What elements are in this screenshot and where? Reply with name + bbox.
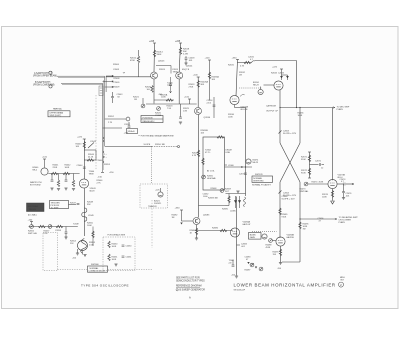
svg-text:SWP CAL: SWP CAL (28, 232, 38, 235)
gain box (249, 233, 262, 240)
tube V2084B (276, 237, 285, 246)
svg-text:SWP/MAG: SWP/MAG (28, 205, 39, 208)
svg-text:100K: 100K (228, 117, 233, 119)
pot R2088 (269, 239, 273, 243)
svg-text:LOWER BEAM HORIZONTAL AMPLIFIE: LOWER BEAM HORIZONTAL AMPLIFIER (234, 282, 336, 287)
tube V2034A (230, 95, 239, 104)
svg-text:910K: 910K (301, 173, 306, 175)
svg-text:TO SWP: TO SWP (51, 207, 60, 209)
svg-text:R2074: R2074 (312, 182, 319, 184)
svg-text:1M: 1M (239, 75, 242, 77)
svg-text:b→: b→ (104, 157, 107, 159)
capacitor C2018 (185, 56, 187, 58)
svg-text:6DL4 B: 6DL4 B (241, 109, 249, 111)
common mode box (88, 266, 108, 272)
wire to CF plate (255, 60, 297, 62)
svg-text:2.7K: 2.7K (97, 183, 102, 185)
svg-text:+225: +225 (77, 137, 83, 139)
svg-text:C2061: C2061 (126, 257, 133, 259)
svg-text:7.5K: 7.5K (167, 108, 172, 110)
svg-text:R2034: R2034 (271, 73, 278, 75)
svg-text:R2024: R2024 (159, 69, 166, 71)
svg-text:C2072: C2072 (239, 174, 246, 176)
cathode resistor R2076 (332, 189, 334, 201)
svg-text:T2049: T2049 (73, 224, 80, 226)
capacitor C2044 / trimmer (83, 167, 86, 168)
grid wire (106, 76, 151, 78)
output wire to delayed sweep plate (280, 107, 333, 109)
svg-text:R2085: R2085 (222, 209, 229, 211)
tube V2074B (328, 179, 337, 188)
diode pair (281, 75, 289, 80)
position range box (141, 116, 163, 123)
svg-text:REGIS: REGIS (29, 209, 36, 211)
svg-text:+225: +225 (149, 41, 155, 43)
svg-text:6AU5W: 6AU5W (287, 236, 294, 239)
capacitor C2024 coupling (156, 66, 171, 74)
dashed box A (43, 233, 58, 271)
svg-text:100K: 100K (112, 246, 117, 248)
svg-text:30K: 30K (200, 84, 204, 86)
resistors R2071 R2072 (309, 152, 311, 178)
svg-text:SLOPE: SLOPE (144, 144, 151, 146)
resistor R2096 (299, 222, 301, 229)
svg-text:C2051: C2051 (124, 124, 131, 126)
plate output wire (299, 218, 300, 219)
svg-text:C2043: C2043 (90, 141, 97, 143)
wire X right leg top (299, 108, 301, 144)
supply +225 (tube V2024A) (153, 42, 156, 44)
svg-text:PLATE: PLATE (337, 108, 344, 111)
pot on bottom edge (220, 189, 224, 193)
svg-text:1.8K: 1.8K (183, 111, 188, 113)
svg-text:100K: 100K (87, 225, 92, 227)
bus component cluster (103, 76, 112, 92)
svg-text:TRIM: TRIM (173, 71, 178, 73)
svg-text:a→: a→ (104, 154, 107, 156)
svg-text:+225: +225 (175, 41, 181, 43)
svg-text:C2058: C2058 (55, 230, 62, 232)
svg-text:C2009: C2009 (114, 82, 121, 84)
potentiometer POSN (157, 107, 161, 111)
svg-text:COMMON MODE: COMMON MODE (89, 270, 106, 272)
svg-text:270K: 270K (189, 87, 194, 89)
svg-text:RANGE ADJ: RANGE ADJ (143, 120, 155, 123)
svg-text:6DQ7 B: 6DQ7 B (182, 69, 190, 71)
resistor R2014 (153, 50, 155, 57)
svg-text:R2006: R2006 (113, 64, 120, 66)
resistor R2026 (153, 79, 155, 104)
capacitor C2031 (251, 61, 255, 63)
svg-text:R2008: R2008 (114, 78, 121, 80)
svg-text:C2044: C2044 (77, 165, 84, 167)
svg-text:1M: 1M (172, 217, 175, 219)
svg-text:Q2024: Q2024 (186, 66, 193, 68)
svg-text:C2034: C2034 (278, 73, 285, 75)
grid wire (48, 173, 79, 175)
capacitor C2076 (343, 184, 345, 192)
transistor Q2034 (195, 108, 202, 115)
svg-text:REFERENCE DIAGRAM: REFERENCE DIAGRAM (176, 285, 202, 288)
resistor R2043 (83, 142, 85, 149)
test point pads (112, 75, 114, 88)
svg-text:R2086: R2086 (212, 228, 219, 230)
svg-text:A SAWTOOTH ↗: A SAWTOOTH ↗ (34, 72, 52, 75)
lamp B2074 (246, 159, 251, 164)
svg-text:FOR DETAILS SEE: FOR DETAILS SEE (108, 234, 126, 237)
wire to DC shift (103, 127, 123, 129)
svg-text:4.7K: 4.7K (240, 66, 245, 68)
attenuator block (99, 86, 103, 96)
svg-text:R2031: R2031 (228, 65, 235, 67)
svg-text:6AU5 W: 6AU5 W (243, 223, 251, 226)
svg-text:R2068: R2068 (211, 188, 218, 190)
dotted grid line (239, 87, 262, 89)
svg-text:1.5M: 1.5M (89, 245, 94, 247)
svg-text:-150: -150 (98, 177, 103, 179)
svg-text:Q2083: Q2083 (203, 214, 210, 216)
capacitor C2071 (310, 164, 319, 166)
tube V2043B swirl (78, 241, 88, 251)
svg-text:2.7K: 2.7K (108, 122, 113, 124)
svg-text:SEMICONDUCTOR TYPES: SEMICONDUCTOR TYPES (176, 281, 205, 283)
node A: sawtooth input A wire (double) (57, 75, 105, 77)
bus junction dots (103, 137, 104, 162)
svg-text:R2053: R2053 (104, 164, 111, 166)
svg-text:C2008: C2008 (113, 69, 120, 71)
test point wire (105, 118, 127, 120)
svg-text:910K: 910K (301, 159, 306, 161)
svg-text:NORMAL: NORMAL (90, 267, 100, 270)
resistor R2064 top (217, 136, 224, 138)
svg-text:B SWEEP GENERATOR: B SWEEP GENERATOR (180, 289, 206, 292)
ground at rect (236, 191, 239, 193)
supply +225 (tube V2024B) (179, 42, 182, 44)
resistor R2053 (92, 227, 94, 247)
svg-text:TYPE 504 OSCILLOSCOPE: TYPE 504 OSCILLOSCOPE (81, 283, 129, 287)
trimmer C2030 (240, 95, 245, 97)
capacitor C2072 (244, 173, 247, 174)
svg-text:B2085: B2085 (250, 234, 257, 236)
dotted gain line (252, 231, 277, 233)
capacitor C2063 (279, 131, 282, 134)
cal wire (29, 226, 78, 228)
circled 2 (339, 282, 344, 287)
svg-text:(DC BAL): (DC BAL) (28, 214, 37, 217)
svg-text:R2087: R2087 (245, 270, 252, 272)
svg-text:UPPER BEAM: UPPER BEAM (50, 112, 64, 115)
svg-text:+350: +350 (175, 208, 181, 210)
svg-text:SW2070: SW2070 (255, 174, 264, 176)
tube Q2083 (193, 218, 200, 225)
resistor R2018 (179, 48, 181, 55)
svg-text:453K: 453K (266, 247, 271, 249)
svg-text:100K: 100K (112, 259, 117, 261)
shunt cap + gnd (65, 227, 67, 233)
resistor R2023 (166, 99, 173, 101)
wire right output vertical (332, 108, 334, 181)
resistor R2036A (197, 81, 199, 88)
svg-text:100K: 100K (161, 97, 166, 99)
svg-text:Q2023: Q2023 (158, 61, 165, 63)
svg-text:+100: +100 (184, 97, 190, 99)
cathode resistor R2095 (280, 246, 282, 262)
cathode down (279, 90, 281, 143)
svg-text:DS2021: DS2021 (154, 203, 162, 205)
wire (179, 43, 180, 72)
svg-text:C2046: C2046 (97, 160, 104, 162)
svg-text:+100: +100 (205, 58, 211, 60)
svg-text:TRIM: TRIM (167, 85, 172, 87)
svg-text:R2083 30K: R2083 30K (208, 198, 219, 200)
svg-text:100K: 100K (65, 167, 70, 169)
capacitor C2064 (279, 191, 282, 194)
svg-text:SN 2005-UP: SN 2005-UP (234, 289, 246, 291)
wire (153, 43, 156, 72)
tube V2084A (236, 197, 238, 276)
dashed boundary vertical (95, 95, 97, 170)
svg-text:NORMAL: NORMAL (253, 177, 263, 180)
trigger pickoff box (50, 201, 69, 209)
svg-text:GAIN: GAIN (250, 236, 256, 239)
ground (331, 201, 335, 204)
pot HUM BAL (202, 175, 206, 179)
svg-text:SWP BAL: SWP BAL (300, 190, 310, 193)
capacitor C2043 (88, 143, 94, 149)
svg-text:TIME/DIV: TIME/DIV (148, 206, 157, 208)
emitter resistor R2084 (196, 225, 198, 238)
wire: bus vertical pair (104, 76, 106, 146)
wire (236, 60, 238, 96)
svg-text:EXT HORIZ: EXT HORIZ (30, 185, 41, 187)
svg-text:PLATE: PLATE (339, 221, 346, 224)
svg-text:SLOPE = 1/2V: SLOPE = 1/2V (283, 133, 297, 135)
norm/invert box (252, 176, 273, 182)
output capacitor C2074 (337, 183, 343, 185)
svg-text:SWP (LEFT): SWP (LEFT) (50, 115, 62, 117)
tube V2024B (176, 72, 183, 79)
svg-text:910K: 910K (282, 217, 287, 219)
svg-text:SLOPE = 1/2V: SLOPE = 1/2V (282, 199, 296, 201)
node B: sawtooth input B wire (double) (61, 82, 103, 84)
tube V2024A (151, 72, 158, 79)
svg-text:470K: 470K (130, 60, 135, 62)
diode D2082 (180, 223, 182, 225)
X crossover wires (280, 143, 300, 182)
pot R2073 (304, 182, 308, 186)
svg-text:SEE PARTS LIST FOR: SEE PARTS LIST FOR (176, 277, 200, 280)
svg-text:(FROM LOWER BM): (FROM LOWER BM) (33, 84, 55, 86)
svg-text:OUTPUT CF: OUTPUT CF (266, 111, 279, 113)
svg-text:100K: 100K (322, 197, 327, 199)
tube V2043A (79, 179, 88, 188)
resistor R2042 on that wire (197, 150, 199, 157)
svg-text:HUM BAL: HUM BAL (207, 177, 217, 180)
connector J2 (49, 85, 52, 88)
loop R2044 (84, 149, 96, 151)
svg-text:2.5K: 2.5K (44, 233, 49, 235)
svg-text:L2085: L2085 (230, 211, 236, 213)
svg-text:PARTIAL: PARTIAL (53, 108, 63, 111)
swp/mag regis box (27, 203, 45, 212)
long wire: slope pickoff (105, 145, 152, 147)
svg-text:R2052: R2052 (108, 116, 115, 118)
svg-text:1M: 1M (134, 99, 137, 101)
delay coil (82, 208, 87, 221)
svg-text:B SAWTOOTH: B SAWTOOTH (35, 81, 51, 84)
svg-text:CATHODE: CATHODE (266, 105, 277, 108)
wire below tube2 (178, 79, 180, 104)
svg-text:LINE: LINE (226, 152, 231, 154)
svg-text:SW A-B: SW A-B (128, 130, 136, 133)
dotted drop to lamp box (151, 147, 153, 185)
svg-text:NE-23: NE-23 (253, 162, 260, 164)
svg-text:TRIM: TRIM (89, 174, 94, 176)
capacitor C2084 (237, 244, 241, 246)
svg-text:6DJ8: 6DJ8 (90, 191, 96, 193)
tube V2034B (274, 81, 283, 90)
cathode wire down (234, 105, 236, 108)
svg-text:POSITION: POSITION (143, 117, 153, 119)
svg-text:+225: +225 (272, 67, 278, 69)
dashed lamp box (140, 184, 168, 208)
svg-text:*** FOR THIS AND SIMILAR WAVEF: *** FOR THIS AND SIMILAR WAVEFORM (138, 135, 174, 138)
wire Q2034 emitter down (198, 115, 200, 218)
svg-text:+100: +100 (193, 75, 199, 77)
svg-text:SW2060: SW2060 (91, 264, 100, 266)
svg-text:44.2K: 44.2K (88, 157, 94, 159)
svg-text:INVERTED: INVERTED (253, 181, 264, 183)
svg-text:C2060: C2060 (126, 246, 133, 248)
svg-text:R2009: R2009 (114, 87, 121, 89)
svg-text:NE-23: NE-23 (253, 85, 260, 87)
peaking cluster (226, 193, 246, 195)
bottom loop (282, 261, 300, 263)
svg-text:AT COIL: AT COIL (207, 170, 215, 173)
resistor R2031 (238, 62, 251, 64)
svg-text:(FROM UPPER BEAM): (FROM UPPER BEAM) (33, 75, 57, 78)
svg-text:220K: 220K (53, 167, 58, 169)
svg-text:+100: +100 (42, 157, 48, 159)
collector wire (199, 205, 226, 207)
svg-text:R2047: R2047 (70, 203, 77, 205)
svg-text:5.2W: 5.2W (183, 54, 188, 56)
wire rect to lamp line (225, 166, 253, 168)
wire V2043A cathode down (83, 188, 85, 236)
dashed links (58, 269, 88, 271)
svg-text:A: A (189, 296, 191, 300)
delay line network rectangle (203, 137, 225, 190)
svg-text:NORMAL POLARITY: NORMAL POLARITY (252, 184, 272, 187)
grid wire V2084A (197, 230, 233, 232)
svg-text:L2049: L2049 (88, 215, 94, 217)
shunt parts (52, 174, 74, 181)
svg-text:1W: 1W (303, 229, 306, 231)
svg-text:330K: 330K (157, 54, 162, 56)
svg-text:4.7K: 4.7K (192, 155, 197, 157)
svg-text:C2071: C2071 (315, 161, 322, 163)
cathode gnd (77, 249, 79, 253)
svg-text:Q2034: Q2034 (204, 117, 211, 119)
connector J1 (49, 71, 52, 74)
inductor (244, 197, 246, 207)
svg-text:47.2 L: 47.2 L (205, 152, 211, 154)
lamp B2034 (258, 89, 263, 94)
svg-text:R2050 18K: R2050 18K (155, 144, 166, 146)
svg-text:453K: 453K (319, 182, 324, 184)
lamp B2085 (262, 234, 267, 239)
